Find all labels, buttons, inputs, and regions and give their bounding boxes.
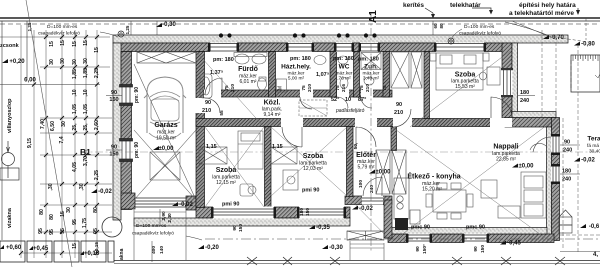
svg-text:-0,30: -0,30 bbox=[162, 22, 176, 28]
svg-text:90: 90 bbox=[205, 100, 211, 106]
svg-text:25,: 25, bbox=[72, 123, 78, 131]
svg-text:30: 30 bbox=[66, 207, 72, 213]
symbol manhole circle bbox=[102, 217, 122, 237]
svg-text:1,05: 1,05 bbox=[72, 104, 78, 114]
svg-text:pm: 180: pm: 180 bbox=[290, 56, 311, 62]
svg-text:1,85: 1,85 bbox=[83, 68, 89, 78]
svg-text:15: 15 bbox=[72, 243, 78, 249]
wall nappali top exterior bbox=[505, 118, 553, 128]
svg-text:240: 240 bbox=[369, 185, 375, 193]
svg-text:-0,45: -0,45 bbox=[507, 241, 521, 247]
svg-text:,10: ,10 bbox=[83, 89, 89, 96]
svg-text:vizakna: vizakna bbox=[7, 207, 13, 228]
walkway porch bbox=[350, 241, 384, 260]
svg-text:240: 240 bbox=[563, 148, 572, 154]
svg-text:22,85 m²: 22,85 m² bbox=[496, 157, 516, 163]
furniture zuh shower bbox=[361, 53, 381, 86]
svg-text:80: 80 bbox=[49, 214, 55, 220]
wall top exterior bbox=[120, 43, 510, 52]
furniture corridor wardrobe bbox=[391, 52, 422, 88]
symbol electric pole bbox=[0, 141, 19, 180]
door corridor-eloter bbox=[393, 109, 411, 127]
svg-text:75: 75 bbox=[301, 85, 307, 91]
wall right lower exterior bbox=[552, 118, 560, 241]
svg-text:55: 55 bbox=[219, 110, 225, 116]
door terrace nappali bbox=[533, 137, 551, 152]
svg-text:A1: A1 bbox=[368, 10, 379, 23]
svg-text:1,25: 1,25 bbox=[125, 25, 130, 34]
wall porch right side bbox=[384, 200, 392, 238]
wall right upper insulation bbox=[512, 43, 518, 113]
svg-text:-0,02: -0,02 bbox=[359, 206, 373, 212]
svg-text:,30: ,30 bbox=[79, 183, 85, 190]
room labels bbox=[154, 64, 600, 193]
door zuh bbox=[361, 97, 372, 108]
svg-text:+0,60: +0,60 bbox=[6, 245, 22, 251]
svg-text:Zuh.: Zuh. bbox=[364, 64, 378, 71]
svg-text:216: 216 bbox=[341, 84, 347, 92]
wall interior szoba-tr west bbox=[424, 52, 430, 119]
svg-text:pmc 90: pmc 90 bbox=[411, 225, 430, 231]
door front entry bbox=[363, 177, 382, 196]
window gap right upper wall 180-240 bbox=[501, 68, 513, 97]
svg-text:csapadékvíz lefolyó: csapadékvíz lefolyó bbox=[132, 231, 174, 237]
garage 2,90 dim line bbox=[152, 209, 160, 262]
wall interior garage-rooms bbox=[196, 52, 205, 208]
svg-text:10: 10 bbox=[345, 97, 351, 103]
svg-text:pmi 90: pmi 90 bbox=[302, 188, 319, 194]
window gaps bottom bedroom wall bbox=[213, 207, 344, 219]
furniture szoba1 bed bbox=[238, 131, 263, 169]
wall garage bottom jamb left bbox=[121, 193, 135, 209]
furniture nappali armchair bbox=[481, 143, 546, 198]
svg-text:150: 150 bbox=[305, 208, 311, 216]
furniture car bbox=[144, 77, 186, 139]
svg-text:150: 150 bbox=[238, 224, 244, 232]
svg-text:pm: 90: pm: 90 bbox=[134, 87, 140, 103]
svg-text:15: 15 bbox=[83, 40, 89, 46]
svg-text:csapadékvíz lefolyó: csapadékvíz lefolyó bbox=[459, 31, 501, 37]
survey ticks top bbox=[131, 21, 433, 35]
svg-text:Házt.hely.: Házt.hely. bbox=[281, 64, 311, 71]
door wc bbox=[337, 97, 348, 108]
svg-text:9,15: 9,15 bbox=[27, 138, 33, 148]
bottom retaining wall boxes bbox=[0, 241, 114, 262]
downpipe circle top left bbox=[118, 31, 124, 37]
svg-text:95: 95 bbox=[60, 228, 66, 234]
svg-text:52°: 52° bbox=[331, 97, 339, 103]
svg-text:fá má: fá má bbox=[587, 143, 599, 149]
svg-text:80: 80 bbox=[93, 207, 99, 213]
window jamb blocks top wall bbox=[208, 43, 486, 52]
svg-text:4,: 4, bbox=[593, 252, 598, 258]
svg-text:+0,15: +0,15 bbox=[84, 251, 100, 257]
svg-text:180: 180 bbox=[520, 90, 529, 96]
terrain slant line left bbox=[26, 0, 72, 267]
wall interior furdo-hazt bbox=[269, 52, 276, 98]
svg-text:6,50: 6,50 bbox=[50, 121, 56, 131]
svg-text:±0,00: ±0,00 bbox=[519, 164, 535, 170]
svg-text:9,14 m²: 9,14 m² bbox=[264, 112, 281, 118]
svg-text:D=100 mm-es: D=100 mm-es bbox=[464, 24, 495, 30]
svg-text:1,37⁵: 1,37⁵ bbox=[210, 70, 224, 76]
svg-text:180: 180 bbox=[562, 169, 571, 175]
furniture szoba1 wardrobe bbox=[199, 147, 227, 164]
svg-text:90: 90 bbox=[473, 246, 479, 252]
furniture szoba1 chair bbox=[240, 184, 256, 196]
rotated door dims 75-210 bbox=[94, 84, 486, 254]
svg-text:Szoba: Szoba bbox=[455, 72, 476, 79]
szoba tr door dim bbox=[518, 90, 535, 104]
furniture szoba2 wardrobe bbox=[271, 147, 297, 164]
window gaps in top wall bbox=[210, 43, 484, 53]
svg-text:2,25: 2,25 bbox=[94, 170, 100, 180]
svg-text:pmc 90: pmc 90 bbox=[466, 225, 485, 231]
svg-text:12,15 m²: 12,15 m² bbox=[216, 180, 236, 186]
svg-text:Nappali: Nappali bbox=[493, 144, 518, 151]
svg-text:Szoba: Szoba bbox=[216, 167, 237, 174]
leader arrows top bbox=[425, 8, 580, 35]
svg-text:pm: 180: pm: 180 bbox=[358, 57, 379, 63]
svg-text:-0,02: -0,02 bbox=[98, 189, 112, 195]
svg-text:90: 90 bbox=[396, 102, 402, 108]
svg-text:,30: ,30 bbox=[48, 183, 54, 190]
furniture garage shelf bbox=[137, 52, 196, 63]
window gaps right lower wall bbox=[551, 136, 560, 182]
wall interior wc west bbox=[330, 52, 337, 98]
svg-text:25,: 25, bbox=[83, 123, 89, 131]
window dim 90-150 upper bbox=[106, 90, 122, 103]
svg-text:padlásfeljáró: padlásfeljáró bbox=[335, 108, 365, 114]
door gaps in interior walls (white) bbox=[196, 90, 513, 128]
svg-text:,10: ,10 bbox=[72, 89, 78, 96]
furniture dining table bbox=[426, 183, 473, 219]
window sill marker dots top wall bbox=[219, 33, 377, 37]
svg-text:75: 75 bbox=[359, 85, 365, 91]
furniture kitchen counter bbox=[394, 178, 420, 224]
interior door dims bbox=[202, 70, 403, 150]
svg-text:7,4: 7,4 bbox=[59, 136, 65, 143]
svg-text:90: 90 bbox=[564, 140, 570, 146]
svg-text:90: 90 bbox=[111, 145, 117, 151]
svg-text:95: 95 bbox=[72, 219, 78, 225]
svg-text:Előtér: Előtér bbox=[356, 152, 376, 159]
driveway edges bbox=[134, 210, 186, 260]
svg-text:140: 140 bbox=[159, 246, 165, 254]
section line A1 bbox=[370, 13, 372, 252]
porch mat bbox=[347, 231, 384, 240]
svg-text:210: 210 bbox=[202, 108, 211, 114]
svg-text:-0,20: -0,20 bbox=[205, 245, 219, 251]
window gaps in left wall bbox=[120, 85, 133, 162]
svg-text:-0,30: -0,30 bbox=[329, 245, 343, 251]
svg-text:210: 210 bbox=[230, 84, 236, 92]
svg-text:5,79 m²: 5,79 m² bbox=[358, 165, 375, 171]
svg-text:-0,80: -0,80 bbox=[581, 42, 595, 48]
svg-text:2,40: 2,40 bbox=[167, 213, 173, 223]
svg-text:30: 30 bbox=[83, 58, 89, 64]
wall interior szoba1-szoba2 bbox=[265, 127, 272, 208]
top boundary labels bbox=[403, 2, 576, 17]
furniture nappali sofa bbox=[498, 172, 546, 218]
svg-text:pm: 180: pm: 180 bbox=[333, 56, 354, 62]
dimension ticks left bbox=[19, 35, 99, 255]
svg-text:95: 95 bbox=[93, 228, 99, 234]
svg-text:2,25: 2,25 bbox=[94, 68, 100, 78]
door szoba2 bbox=[356, 127, 376, 147]
wall nappali top insulation bbox=[512, 112, 556, 118]
drain label bottom bbox=[132, 223, 202, 240]
svg-text:95: 95 bbox=[38, 228, 44, 234]
svg-text:zcsonk: zcsonk bbox=[0, 43, 20, 49]
furniture szoba-tr desk bbox=[480, 67, 501, 85]
wall interior bathroom south bbox=[204, 90, 392, 97]
svg-text:akna: akna bbox=[119, 248, 125, 260]
kitchen window labels bbox=[222, 188, 485, 231]
svg-text:240: 240 bbox=[520, 98, 529, 104]
reference diagonals bbox=[196, 51, 551, 242]
window gaps bottom kitchen wall bbox=[408, 234, 487, 244]
svg-text:-0,35: -0,35 bbox=[316, 225, 330, 231]
furniture eloter closets bbox=[376, 150, 406, 194]
garage door opening bbox=[135, 198, 186, 207]
left vertical boundary lines bbox=[2, 21, 27, 240]
svg-text:+0,45: +0,45 bbox=[33, 246, 49, 252]
svg-text:12,03 m²: 12,03 m² bbox=[303, 166, 323, 172]
svg-text:csapadékvíz lefolyó: csapadékvíz lefolyó bbox=[38, 31, 80, 37]
furniture szoba2 desk bbox=[283, 170, 298, 190]
garage cross diagonals bbox=[134, 64, 196, 200]
svg-text:pm: 90: pm: 90 bbox=[134, 142, 140, 158]
section line B1 bbox=[80, 151, 600, 153]
furniture szoba-tr bed bbox=[430, 53, 489, 90]
drain label top left bbox=[38, 24, 118, 37]
svg-text:Közl.: Közl. bbox=[264, 100, 281, 107]
steps right of kitchen bbox=[559, 210, 572, 233]
wall bottom bedrooms insulation bbox=[134, 218, 350, 226]
svg-text:15: 15 bbox=[60, 40, 66, 46]
svg-text:Fürdő: Fürdő bbox=[238, 66, 258, 73]
dimension chain lines left bbox=[0, 25, 112, 258]
svg-text:D=100 mm-es: D=100 mm-es bbox=[136, 223, 167, 229]
svg-text:4,05: 4,05 bbox=[72, 162, 78, 172]
svg-text:60: 60 bbox=[433, 23, 438, 29]
svg-text:a telekhatártól mérve: a telekhatártól mérve bbox=[509, 10, 574, 17]
svg-text:+0,20: +0,20 bbox=[9, 59, 25, 65]
svg-text:210: 210 bbox=[307, 84, 313, 92]
svg-text:-0,70: -0,70 bbox=[550, 35, 564, 41]
svg-text:építési hely határa: építési hely határa bbox=[519, 2, 576, 9]
fence X extra bbox=[283, 257, 292, 265]
svg-text:19,50 m²: 19,50 m² bbox=[156, 136, 176, 142]
svg-text:15,53 m²: 15,53 m² bbox=[455, 84, 475, 90]
svg-text:pm: 180: pm: 180 bbox=[213, 57, 234, 63]
wall interior corridor south long bbox=[196, 119, 505, 127]
door arcs bbox=[205, 78, 551, 196]
svg-text:1,85: 1,85 bbox=[72, 69, 78, 79]
svg-text:15,20 m²: 15,20 m² bbox=[422, 187, 442, 193]
wall interior szoba2-eloter bbox=[347, 127, 354, 197]
wall bottom kitchen exterior bbox=[388, 234, 554, 243]
wall left exterior bbox=[121, 52, 132, 210]
wall left exterior insulation strip bbox=[113, 43, 121, 220]
drain label top right bbox=[452, 24, 501, 38]
svg-text:±0,00: ±0,00 bbox=[376, 170, 392, 176]
svg-text:3,40 m²: 3,40 m² bbox=[363, 76, 380, 82]
wall garage bottom jamb right bbox=[186, 196, 196, 210]
svg-text:80: 80 bbox=[39, 209, 45, 215]
door hazt bbox=[300, 97, 312, 109]
svg-text:7,40: 7,40 bbox=[40, 119, 46, 129]
svg-text:30: 30 bbox=[72, 59, 78, 65]
retaining wall comb top right bbox=[571, 55, 600, 92]
svg-text:30: 30 bbox=[61, 121, 67, 127]
wall eloter bottom exterior bbox=[345, 196, 392, 205]
svg-text:15: 15 bbox=[72, 41, 78, 47]
right side dims bbox=[560, 140, 580, 183]
window dim 90-150 lower bbox=[106, 145, 122, 158]
svg-text:210: 210 bbox=[394, 110, 403, 116]
furniture wc bowl bbox=[338, 56, 348, 89]
svg-text:90: 90 bbox=[232, 225, 238, 231]
padlasfeljaro bbox=[299, 100, 365, 116]
furniture hazt basin bbox=[314, 56, 326, 65]
svg-text:D=100 mm-es: D=100 mm-es bbox=[47, 24, 78, 30]
svg-text:100: 100 bbox=[358, 180, 364, 188]
svg-text:1,05: 1,05 bbox=[83, 104, 89, 114]
svg-text:WC: WC bbox=[339, 64, 350, 71]
svg-text:180: 180 bbox=[299, 208, 305, 216]
window labels pm180 bbox=[213, 56, 379, 63]
downpipe circle top right bbox=[448, 38, 454, 44]
svg-text:5,00 m²: 5,00 m² bbox=[288, 76, 305, 82]
svg-text:90: 90 bbox=[111, 90, 117, 96]
right top corner slope lines bbox=[512, 18, 588, 42]
svg-text:3,70: 3,70 bbox=[83, 156, 89, 166]
svg-text:150: 150 bbox=[480, 245, 486, 253]
svg-text:-0,02: -0,02 bbox=[581, 158, 595, 164]
svg-text:95: 95 bbox=[49, 229, 55, 235]
svg-text:150°: 150° bbox=[422, 244, 428, 254]
svg-text:Szoba: Szoba bbox=[303, 153, 324, 160]
svg-text:2,60: 2,60 bbox=[94, 120, 100, 130]
svg-text:1,15: 1,15 bbox=[272, 144, 283, 150]
svg-text:210: 210 bbox=[365, 84, 371, 92]
wall bottom bedrooms exterior bbox=[196, 207, 350, 218]
svg-text:villanyoszlop: villanyoszlop bbox=[7, 98, 13, 133]
svg-text:±0,00: ±0,00 bbox=[159, 146, 175, 152]
svg-text:30: 30 bbox=[60, 58, 66, 64]
svg-text:150: 150 bbox=[109, 97, 118, 103]
svg-text:-0,6: -0,6 bbox=[589, 224, 600, 230]
svg-text:50,: 50, bbox=[353, 142, 359, 149]
svg-text:pmi 90: pmi 90 bbox=[222, 202, 239, 208]
furniture kitchen stove bbox=[395, 218, 408, 230]
svg-text:90: 90 bbox=[415, 246, 421, 252]
svg-text:Garázs: Garázs bbox=[154, 122, 177, 129]
svg-text:6,01 m²: 6,01 m² bbox=[240, 79, 257, 85]
svg-text:1,75: 1,75 bbox=[82, 218, 88, 228]
wall top exterior insulation strip bbox=[113, 35, 568, 43]
svg-text:75: 75 bbox=[224, 85, 230, 91]
svg-text:M: M bbox=[278, 86, 284, 90]
svg-text:2,90: 2,90 bbox=[161, 211, 167, 221]
fence line bottom bbox=[114, 257, 600, 265]
wall right upper exterior bbox=[502, 43, 512, 118]
svg-text:-0,02: -0,02 bbox=[179, 202, 193, 208]
svg-text:1,07⁵: 1,07⁵ bbox=[316, 72, 330, 78]
svg-text:87°: 87° bbox=[358, 97, 366, 103]
svg-text:6,00: 6,00 bbox=[24, 78, 36, 84]
door garage-kozl bbox=[205, 98, 220, 113]
svg-text:240: 240 bbox=[562, 177, 571, 183]
svg-text:30,40: 30,40 bbox=[589, 149, 600, 155]
wall bottom kitchen insulation bbox=[390, 228, 547, 235]
window jamb blocks bottom walls bbox=[211, 134, 560, 243]
svg-text:Étkező - konyha: Étkező - konyha bbox=[407, 172, 460, 181]
svg-text:75: 75 bbox=[335, 85, 341, 91]
wire property line top bbox=[0, 18, 600, 24]
front door gap eloter wall bbox=[362, 196, 383, 205]
svg-text:30: 30 bbox=[49, 59, 55, 65]
dimension numbers left rotated bbox=[27, 40, 100, 249]
ground line mid bottom bbox=[205, 239, 600, 258]
terrace dashed outline bbox=[542, 30, 600, 252]
wall right lower insulation bbox=[547, 127, 552, 235]
svg-text:Tera: Tera bbox=[587, 136, 600, 143]
furniture furdo basins bbox=[234, 53, 267, 91]
svg-text:15: 15 bbox=[49, 41, 55, 47]
svg-text:,76 m²: ,76 m² bbox=[337, 76, 351, 82]
svg-text:1,15: 1,15 bbox=[206, 144, 217, 150]
wall interior zuh east bbox=[383, 52, 390, 98]
wall interior wc-zuh bbox=[354, 52, 360, 98]
door szoba-tr bbox=[491, 97, 512, 118]
door szoba1 bbox=[282, 127, 302, 147]
svg-text:75: 75 bbox=[382, 85, 388, 91]
wall interior eloter-konyha bbox=[391, 127, 397, 151]
svg-text:150: 150 bbox=[109, 152, 118, 158]
svg-text:80: 80 bbox=[439, 23, 444, 29]
svg-text:15: 15 bbox=[94, 47, 100, 53]
svg-text:kerítés: kerítés bbox=[403, 2, 424, 9]
door furdo bbox=[205, 78, 222, 95]
furniture furdo tub bbox=[200, 74, 212, 98]
